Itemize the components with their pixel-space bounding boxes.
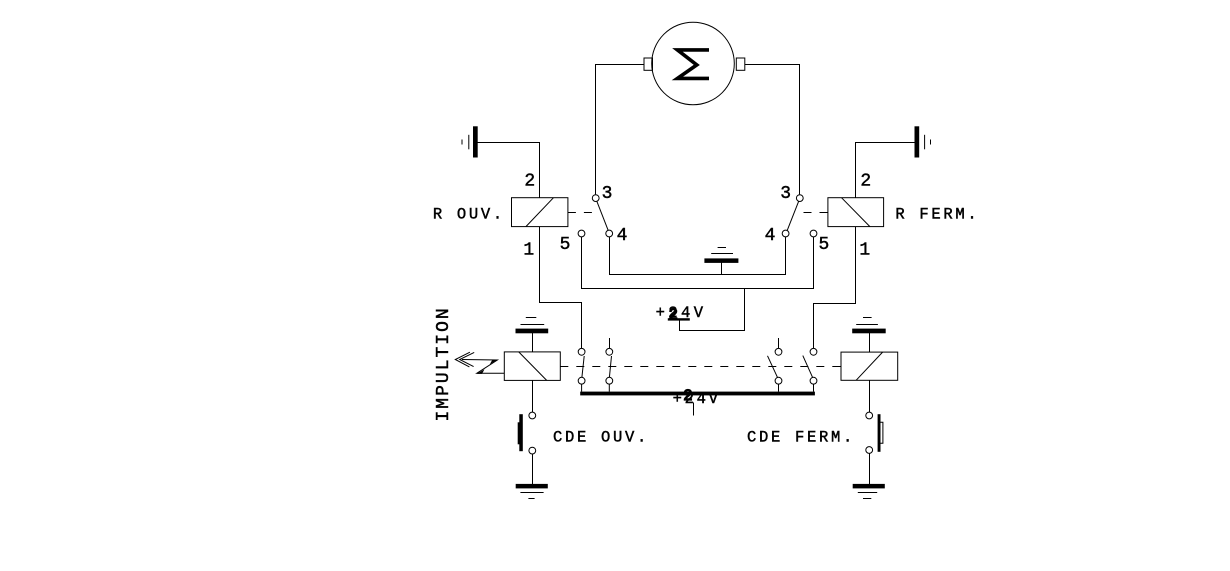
contact K1b stub (609, 338, 611, 348)
wire K1 to button CDE OUV (532, 380, 534, 412)
wire button to ground (869, 453, 871, 484)
contact K1a top (578, 348, 585, 355)
switch SW2 contact 5 (810, 230, 817, 237)
switch SW1 contact 5 (578, 230, 585, 237)
ground G1 (left, rotated) (462, 127, 477, 157)
motor M1 sigma symbol (677, 50, 709, 79)
ground G6 (above K2) (853, 318, 886, 353)
svg-text:3: 3 (602, 184, 613, 204)
wire below bus (693, 403, 695, 416)
svg-text:4: 4 (617, 226, 628, 246)
ground G7 (below CDE FERM) (853, 484, 884, 498)
switch SW1 contact 4 (606, 230, 613, 237)
contact K2a top (775, 348, 782, 355)
svg-text:2: 2 (524, 171, 535, 191)
svg-text:4: 4 (765, 226, 776, 246)
svg-text:2: 2 (860, 171, 871, 191)
svg-text:R FERM.: R FERM. (895, 206, 979, 224)
ground G3 (center, under motor) (705, 248, 738, 275)
svg-text:5: 5 (560, 235, 571, 255)
svg-text:CDE FERM.: CDE FERM. (747, 428, 855, 446)
svg-text:R OUV.: R OUV. (433, 206, 505, 224)
wire motor left lead (596, 65, 645, 195)
relay coil R OUV (512, 198, 568, 227)
contact K1b blade (609, 356, 611, 377)
relay coil R FERM (828, 198, 884, 227)
button CDE OUV (518, 412, 536, 454)
wire relay R FERM pin1 down (814, 227, 856, 349)
contact K1a stem to bus (581, 384, 583, 392)
wire contacts 5 rail (582, 237, 814, 289)
wire +24V feed (680, 289, 745, 331)
contact K1b top (606, 348, 613, 355)
svg-text:1: 1 (523, 241, 534, 261)
button CDE FERM (866, 412, 883, 453)
svg-text:2: 2 (683, 387, 695, 405)
wire contacts 4 rail (610, 237, 786, 275)
wire relay R FERM pin2 to ground (856, 143, 916, 198)
svg-text:+24V: +24V (673, 390, 721, 408)
ground G5 (below CDE OUV) (516, 484, 547, 498)
svg-text:1: 1 (859, 241, 870, 261)
impulse arrow (455, 352, 504, 374)
contact K2b stem to bus (813, 384, 815, 392)
contact K2a blade (768, 356, 778, 378)
wire K2 to button CDE FERM (869, 380, 871, 412)
svg-text:5: 5 (819, 235, 830, 255)
bus bar +24V (580, 392, 815, 396)
contact K2a stem to bus (778, 384, 780, 392)
ground G2 (right, rotated) (915, 127, 931, 157)
contact K1a blade (582, 356, 584, 377)
solid stub to K2 (833, 366, 841, 368)
relay coil K2 (841, 352, 898, 380)
switch SW1 contact 3 (592, 195, 599, 202)
wire relay R OUV pin2 to ground (477, 143, 539, 198)
contact K1a bottom (578, 377, 585, 384)
motor terminal right (736, 58, 745, 70)
switch SW2 contact 4 (782, 230, 789, 237)
switch SW2 contact 3 (796, 195, 803, 202)
wire motor right lead (745, 65, 800, 195)
contact K1b bottom (606, 377, 613, 384)
svg-text:CDE OUV.: CDE OUV. (553, 428, 649, 446)
wire relay R OUV pin1 down (540, 227, 582, 349)
wire button to ground (532, 454, 534, 484)
switch SW2 blade (787, 201, 799, 230)
dashed link R FERM to contact (804, 212, 828, 214)
motor M1 circle (652, 22, 735, 105)
contact K2a stub (778, 338, 780, 348)
switch SW1 blade (597, 201, 608, 230)
contact K2a bottom (775, 377, 782, 384)
dashed mechanical link line (560, 366, 833, 368)
contact K2b bottom (810, 377, 817, 384)
motor terminal left (644, 58, 653, 70)
ground G4 (above impulse relay) (516, 318, 548, 352)
contact K2b blade (803, 356, 813, 378)
svg-text:IMPULTION: IMPULTION (434, 306, 454, 421)
dashed link R OUV to contact (568, 212, 592, 214)
contact K1b stem to bus (608, 384, 610, 392)
relay coil K1 (impulse) (504, 352, 560, 381)
svg-text:3: 3 (780, 184, 791, 204)
+24V overstrike underline (668, 318, 690, 320)
contact K2b top (810, 348, 817, 355)
